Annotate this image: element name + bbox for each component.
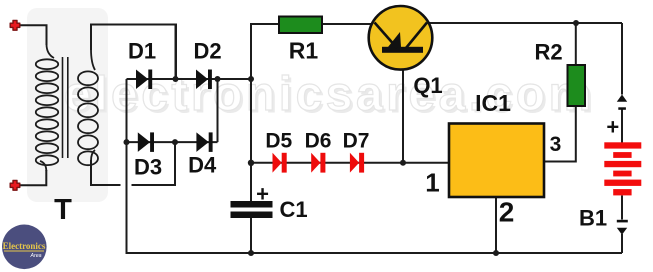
svg-text:Electronics: Electronics xyxy=(3,241,46,251)
svg-text:C1: C1 xyxy=(279,197,307,222)
svg-text:R2: R2 xyxy=(534,40,562,65)
svg-text:R1: R1 xyxy=(289,37,319,63)
svg-text:3: 3 xyxy=(550,133,562,156)
svg-text:+: + xyxy=(256,182,269,207)
svg-text:B1: B1 xyxy=(579,206,607,231)
svg-text:IC1: IC1 xyxy=(475,90,511,116)
svg-text:D2: D2 xyxy=(193,38,221,63)
svg-text:D1: D1 xyxy=(128,38,156,63)
svg-text:D5: D5 xyxy=(265,130,292,153)
svg-text:D3: D3 xyxy=(134,155,162,180)
svg-text:D6: D6 xyxy=(305,130,332,153)
svg-text:D4: D4 xyxy=(188,153,217,178)
svg-text:1: 1 xyxy=(425,168,439,198)
svg-text:Q1: Q1 xyxy=(413,73,442,98)
svg-text:D7: D7 xyxy=(343,130,370,153)
svg-text:2: 2 xyxy=(499,197,515,228)
svg-text:Area: Area xyxy=(30,253,42,259)
svg-text:+: + xyxy=(606,115,619,140)
svg-text:T: T xyxy=(54,194,72,226)
